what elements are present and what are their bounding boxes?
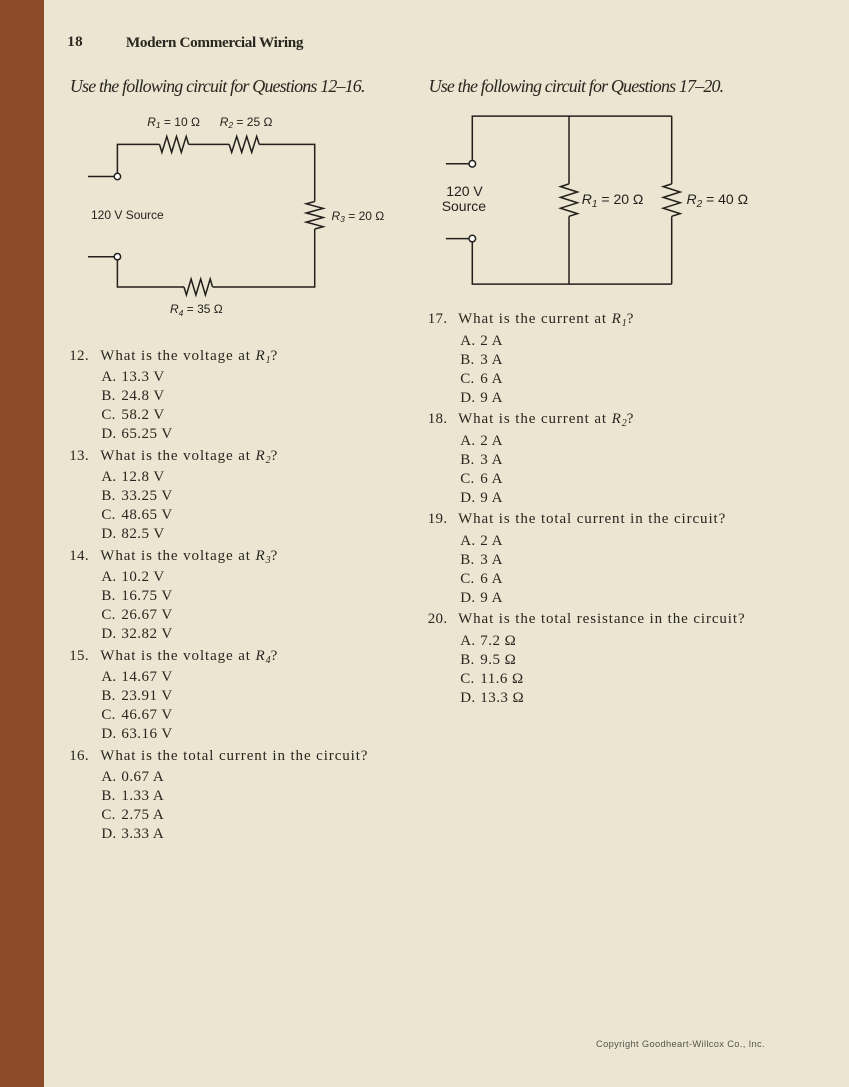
label: R2 = 25 ohm value (circuit 1) [220,116,273,129]
left margin brown band [0,0,44,1087]
resistor R3 (20 ohm) [306,202,323,230]
wire: right branch lower segment [671,216,673,284]
resistor R1 (20 ohm, circuit 2) [561,184,578,216]
resistor R2 (40 ohm, circuit 2) [663,184,680,216]
node: lower terminal of 120 V source (circuit 2) [469,235,476,242]
label: R1 = 20 ohm value (circuit 2) [582,192,644,209]
wire: circuit 1 top segment between R1 and R2 [189,143,230,145]
label: R2 = 40 ohm value (circuit 2) [687,192,749,209]
wire: right branch upper segment [671,116,673,184]
label: R4 = 35 ohm value (circuit 1) [170,303,223,316]
wire: circuit 1 bottom segment from R4 to left, up to lower terminal [117,260,184,287]
wire: circuit 1 top segment from left corner to R1 [117,144,159,173]
wire: stub to lower source terminal (circuit 2) [446,238,469,240]
instruction line (left column) [70,77,365,95]
label: 120 V Source (circuit 1) [91,209,164,221]
label: 120 V Source (circuit 2) [446,184,483,198]
wire: stub to upper source terminal (circuit 2) [446,163,469,165]
wire: circuit 1 top segment from R2 to right corner, down to R3 [259,144,315,201]
resistor R1 (10 ohm) [160,136,189,152]
resistor R2 (25 ohm) [229,136,259,152]
wire: circuit 2 top bus [472,116,671,160]
label: R3 = 20 ohm value (circuit 1) [332,210,385,223]
wire: middle branch lower segment [568,216,570,284]
wire: circuit 2 bottom bus [472,242,671,284]
page number 18 [67,35,83,50]
label: R1 = 10 ohm value (circuit 1) [147,116,200,129]
resistor R4 (35 ohm) [184,279,213,295]
node: upper terminal of 120 V source (circuit 2) [469,161,476,168]
instruction line (right column) [429,77,724,95]
node: upper terminal of 120 V source (circuit 1) [114,173,120,179]
wire: circuit 1 right segment below R3 and bottom to R4 [213,229,315,287]
node: lower terminal of 120 V source (circuit 1) [114,254,120,260]
copyright notice [596,1040,765,1049]
running head: Modern Commercial Wiring [126,35,303,50]
wire: middle branch upper segment [568,116,570,184]
wire: stub to upper source terminal [88,176,114,178]
wire: stub to lower source terminal [88,256,114,258]
